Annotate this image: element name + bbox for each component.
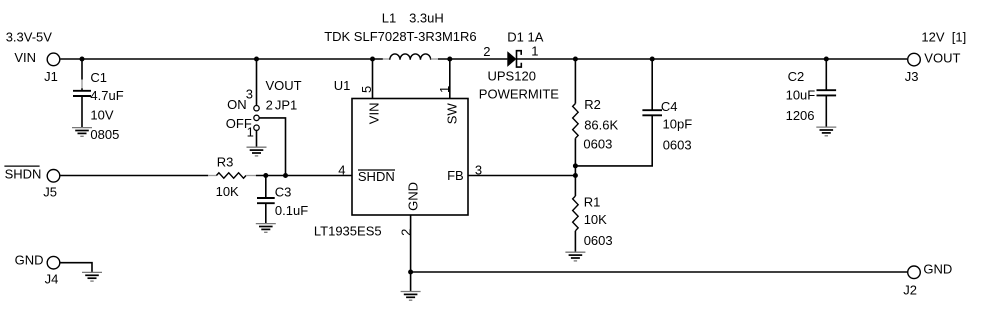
- inductor L1: [390, 54, 431, 60]
- node R2/rail junction: [573, 57, 578, 62]
- node C3/SHDN junction: [263, 173, 268, 178]
- svg-text:L1: L1: [382, 11, 396, 26]
- node C2/rail junction: [824, 57, 829, 62]
- connector J3: [908, 53, 921, 66]
- node JP1/rail junction: [254, 57, 259, 62]
- svg-text:J3: J3: [905, 69, 919, 84]
- ground below C3: [256, 224, 276, 233]
- svg-text:0603: 0603: [663, 137, 692, 152]
- svg-text:C2: C2: [788, 69, 805, 84]
- node C4/rail junction: [650, 57, 655, 62]
- diode D1 UPS120: [507, 51, 521, 67]
- svg-text:R2: R2: [584, 97, 601, 112]
- node SW/L1 junction: [447, 57, 452, 62]
- node C4/R2 junction: [573, 163, 578, 168]
- svg-text:4.7uF: 4.7uF: [90, 88, 123, 103]
- svg-text:5: 5: [359, 86, 374, 93]
- svg-text:C3: C3: [275, 184, 292, 199]
- svg-text:1: 1: [247, 124, 254, 139]
- wire C4 bottom to FB node: [575, 115, 652, 166]
- node JP1 wire/SHDN junction: [283, 173, 288, 178]
- wire SW node to diode anode: [438, 58, 507, 60]
- wire C2 lead: [825, 59, 827, 127]
- resistor R2: [573, 104, 579, 139]
- svg-text:2: 2: [483, 44, 490, 59]
- svg-text:TDK SLF7028T-3R3M1R6: TDK SLF7028T-3R3M1R6: [324, 29, 476, 44]
- node C1/rail junction: [80, 57, 85, 62]
- wire R2 upper lead: [574, 59, 576, 104]
- resistor R3: [216, 173, 246, 179]
- connector J4: [47, 256, 60, 269]
- svg-text:0805: 0805: [90, 127, 119, 142]
- op IC U1 box: [352, 99, 468, 216]
- svg-text:POWERMITE: POWERMITE: [479, 87, 559, 102]
- connector J1: [47, 53, 60, 66]
- svg-text:GND: GND: [923, 262, 952, 277]
- svg-text:3.3V-5V: 3.3V-5V: [6, 30, 53, 45]
- ground below U1 GND: [401, 292, 421, 301]
- svg-text:J4: J4: [45, 271, 59, 286]
- wire C1 lead: [81, 59, 83, 80]
- svg-text:0.1uF: 0.1uF: [275, 203, 308, 218]
- wire U1 VIN pin 5: [372, 59, 374, 99]
- svg-text:UPS120: UPS120: [488, 69, 536, 84]
- jumper JP1 pin 3: [254, 106, 259, 111]
- jumper JP1 pin 2: [254, 115, 259, 120]
- svg-text:J2: J2: [903, 282, 917, 297]
- svg-text:SHDN: SHDN: [5, 166, 42, 181]
- label U1 pin SHDN overline: [358, 169, 395, 171]
- svg-text:1206: 1206: [786, 108, 815, 123]
- ground below C2: [816, 127, 836, 136]
- svg-text:C1: C1: [90, 70, 107, 85]
- capacitor C4: [642, 110, 662, 115]
- wire C3 lead: [265, 176, 267, 224]
- svg-text:VIN: VIN: [14, 50, 36, 65]
- svg-text:R3: R3: [217, 154, 234, 169]
- svg-text:3: 3: [246, 86, 253, 101]
- node VIN/L1 junction: [370, 57, 375, 62]
- svg-text:GND: GND: [15, 253, 44, 268]
- wire inductor right lead: [431, 58, 438, 60]
- svg-text:2: 2: [398, 229, 413, 236]
- wire JP1 pin3 lead from rail: [256, 59, 258, 105]
- svg-text:GND: GND: [405, 182, 420, 211]
- svg-text:10uF: 10uF: [786, 88, 816, 103]
- capacitor C2: [817, 90, 837, 95]
- svg-text:SHDN: SHDN: [358, 169, 395, 184]
- wire R1 bottom lead: [574, 231, 576, 252]
- capacitor C3: [257, 198, 275, 203]
- svg-text:SW: SW: [445, 103, 460, 125]
- wire U1 GND pin 2 down: [410, 215, 412, 291]
- svg-text:12V [1]: 12V [1]: [921, 30, 966, 45]
- svg-text:4: 4: [338, 162, 345, 177]
- connector J5: [47, 170, 60, 183]
- node FB junction: [573, 173, 578, 178]
- wire bottom GND rail: [411, 271, 908, 273]
- svg-text:FB: FB: [447, 168, 464, 183]
- wire SHDN net from J5: [60, 175, 208, 177]
- wire R2 bottom to R1 top: [574, 138, 576, 196]
- wire FB net U1 pin3 to divider: [468, 175, 575, 177]
- wire inductor left lead: [383, 58, 390, 60]
- wire R3 right lead gray: [246, 175, 256, 177]
- wire SHDN net to U1 pin 4: [256, 175, 352, 177]
- svg-text:ON: ON: [227, 97, 247, 112]
- svg-text:0603: 0603: [583, 136, 612, 151]
- svg-text:D1 1A: D1 1A: [507, 29, 543, 44]
- resistor R1: [573, 196, 579, 231]
- wire R3 left lead gray: [208, 175, 216, 177]
- svg-text:1: 1: [437, 86, 452, 93]
- svg-text:2: 2: [266, 98, 273, 113]
- wire top rail left (VIN net): [60, 58, 383, 60]
- svg-text:0603: 0603: [584, 233, 613, 248]
- svg-text:10K: 10K: [584, 212, 607, 227]
- svg-text:3.3uH: 3.3uH: [409, 11, 444, 26]
- svg-text:VIN: VIN: [366, 103, 381, 125]
- svg-text:R1: R1: [584, 194, 601, 209]
- wire J4 to ground: [60, 263, 92, 273]
- ground below R1: [565, 252, 585, 261]
- ground below JP1 pin1: [247, 147, 267, 156]
- svg-text:LT1935ES5: LT1935ES5: [314, 223, 382, 238]
- svg-text:VOUT: VOUT: [924, 50, 960, 65]
- svg-text:U1: U1: [334, 78, 351, 93]
- ground at J4: [82, 272, 102, 281]
- wire C4 upper lead: [651, 59, 653, 110]
- svg-text:10K: 10K: [216, 184, 239, 199]
- wire JP1 pin1 to ground: [256, 131, 258, 147]
- node GND rail junction: [408, 270, 413, 275]
- svg-text:3: 3: [475, 162, 482, 177]
- svg-text:10V: 10V: [90, 107, 113, 122]
- wire C1 lead lower: [81, 88, 83, 127]
- svg-text:C4: C4: [661, 99, 678, 114]
- jumper JP1 pin 1: [254, 125, 259, 130]
- label SHDN overline at J5: [4, 165, 39, 167]
- wire JP1 pin2 to SHDN net: [259, 118, 285, 176]
- svg-text:1: 1: [531, 44, 538, 59]
- svg-text:VOUT: VOUT: [266, 78, 302, 93]
- svg-text:10pF: 10pF: [663, 116, 693, 131]
- wire C1 lead gray: [81, 80, 83, 89]
- ground below C1: [72, 128, 92, 137]
- svg-text:86.6K: 86.6K: [584, 117, 618, 132]
- wire U1 SW pin 1: [449, 59, 451, 99]
- svg-text:JP1: JP1: [275, 98, 297, 113]
- connector J2: [908, 266, 921, 279]
- svg-text:J5: J5: [43, 184, 57, 199]
- capacitor C1: [73, 91, 91, 96]
- wire diode cathode to VOUT: [517, 58, 908, 60]
- svg-text:J1: J1: [44, 69, 58, 84]
